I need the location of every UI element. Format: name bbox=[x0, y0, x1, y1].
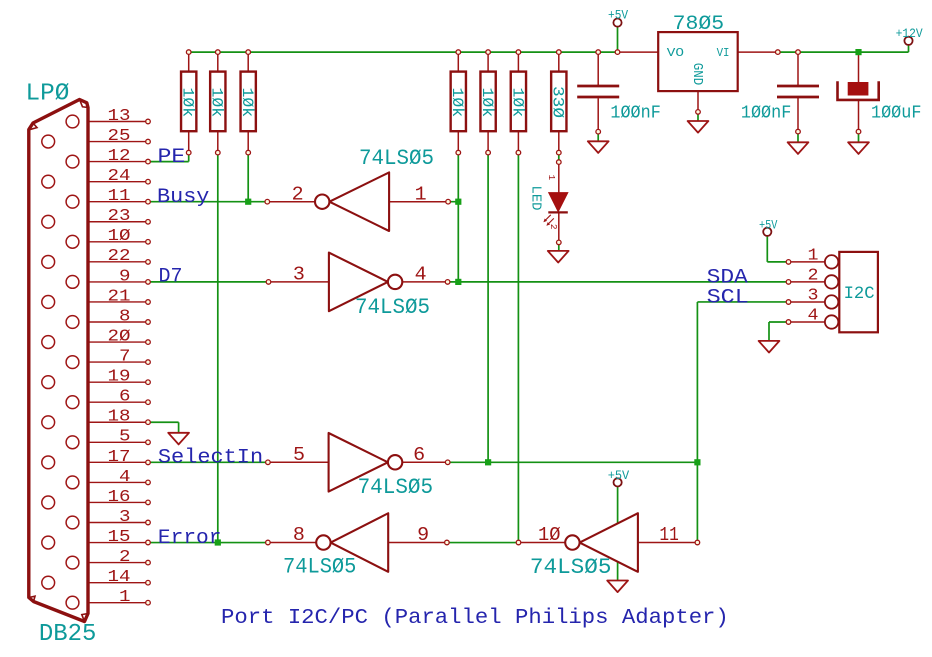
svg-text:1Øk: 1Øk bbox=[478, 88, 496, 118]
svg-text:74LSØ5: 74LSØ5 bbox=[358, 475, 434, 500]
svg-text:SCL: SCL bbox=[707, 287, 749, 310]
svg-text:VI: VI bbox=[717, 46, 730, 60]
svg-text:74LSØ5: 74LSØ5 bbox=[355, 295, 430, 320]
svg-text:3: 3 bbox=[293, 264, 305, 286]
svg-text:PE: PE bbox=[158, 146, 186, 169]
svg-text:23: 23 bbox=[108, 207, 131, 226]
svg-text:GND: GND bbox=[689, 63, 705, 86]
svg-text:19: 19 bbox=[108, 368, 131, 387]
svg-text:6: 6 bbox=[119, 388, 131, 407]
svg-text:1Ø: 1Ø bbox=[108, 227, 131, 246]
svg-text:+5V: +5V bbox=[608, 7, 628, 22]
svg-text:4: 4 bbox=[119, 468, 131, 487]
svg-text:25: 25 bbox=[108, 127, 131, 146]
svg-text:24: 24 bbox=[108, 167, 131, 186]
svg-text:3: 3 bbox=[119, 508, 131, 527]
svg-text:9: 9 bbox=[119, 267, 131, 286]
svg-text:4: 4 bbox=[808, 306, 819, 325]
svg-text:2: 2 bbox=[292, 184, 304, 206]
svg-text:18: 18 bbox=[108, 408, 131, 427]
svg-text:22: 22 bbox=[108, 247, 131, 266]
svg-text:74LSØ5: 74LSØ5 bbox=[530, 555, 612, 580]
svg-text:SelectIn: SelectIn bbox=[158, 447, 263, 470]
svg-text:16: 16 bbox=[108, 488, 131, 507]
svg-text:3: 3 bbox=[808, 285, 819, 304]
svg-text:DB25: DB25 bbox=[39, 621, 97, 648]
svg-text:1: 1 bbox=[415, 184, 427, 206]
svg-text:1Øk: 1Øk bbox=[448, 88, 466, 118]
svg-text:2: 2 bbox=[808, 265, 819, 284]
svg-text:21: 21 bbox=[108, 287, 131, 306]
svg-text:Port I2C/PC (Parallel Philips: Port I2C/PC (Parallel Philips Adapter) bbox=[221, 607, 729, 630]
svg-text:1: 1 bbox=[119, 588, 131, 607]
svg-text:11: 11 bbox=[659, 524, 678, 546]
svg-text:1Øk: 1Øk bbox=[208, 88, 226, 118]
svg-text:11: 11 bbox=[108, 187, 131, 206]
svg-text:LED: LED bbox=[527, 186, 543, 211]
svg-text:1Ø: 1Ø bbox=[538, 524, 561, 546]
svg-text:7: 7 bbox=[119, 348, 131, 367]
svg-text:D7: D7 bbox=[159, 265, 183, 288]
svg-text:I2C: I2C bbox=[844, 284, 875, 304]
svg-text:2: 2 bbox=[119, 548, 131, 567]
svg-text:74LSØ5: 74LSØ5 bbox=[359, 146, 434, 171]
svg-text:1Øk: 1Øk bbox=[179, 88, 197, 118]
svg-text:+5V: +5V bbox=[608, 468, 630, 483]
svg-text:8: 8 bbox=[293, 524, 305, 546]
svg-text:+12V: +12V bbox=[896, 26, 923, 41]
svg-text:17: 17 bbox=[108, 448, 131, 467]
svg-text:1: 1 bbox=[546, 175, 557, 181]
svg-text:+5V: +5V bbox=[759, 218, 778, 233]
svg-text:74LSØ5: 74LSØ5 bbox=[283, 555, 356, 580]
svg-text:14: 14 bbox=[108, 568, 131, 587]
svg-text:2: 2 bbox=[548, 224, 559, 230]
svg-text:15: 15 bbox=[108, 528, 131, 547]
svg-text:13: 13 bbox=[108, 107, 131, 126]
svg-text:1: 1 bbox=[808, 245, 819, 264]
svg-text:5: 5 bbox=[119, 428, 131, 447]
svg-text:2Ø: 2Ø bbox=[108, 327, 131, 346]
svg-text:6: 6 bbox=[413, 444, 425, 466]
svg-text:33Ø: 33Ø bbox=[549, 86, 567, 118]
svg-text:1ØØnF: 1ØØnF bbox=[610, 102, 660, 123]
svg-text:4: 4 bbox=[415, 264, 427, 286]
svg-text:1Øk: 1Øk bbox=[508, 88, 526, 118]
svg-text:VO: VO bbox=[667, 46, 684, 60]
svg-text:1Øk: 1Øk bbox=[238, 88, 256, 118]
svg-text:78Ø5: 78Ø5 bbox=[673, 13, 725, 36]
svg-text:Busy: Busy bbox=[157, 186, 209, 209]
svg-text:9: 9 bbox=[417, 524, 429, 546]
svg-text:1ØØuF: 1ØØuF bbox=[871, 102, 921, 123]
svg-text:5: 5 bbox=[293, 444, 305, 466]
svg-text:1ØØnF: 1ØØnF bbox=[741, 102, 791, 123]
svg-text:Error: Error bbox=[158, 527, 222, 550]
svg-text:LPØ: LPØ bbox=[26, 81, 70, 108]
svg-text:8: 8 bbox=[119, 307, 131, 326]
svg-text:12: 12 bbox=[108, 147, 131, 166]
